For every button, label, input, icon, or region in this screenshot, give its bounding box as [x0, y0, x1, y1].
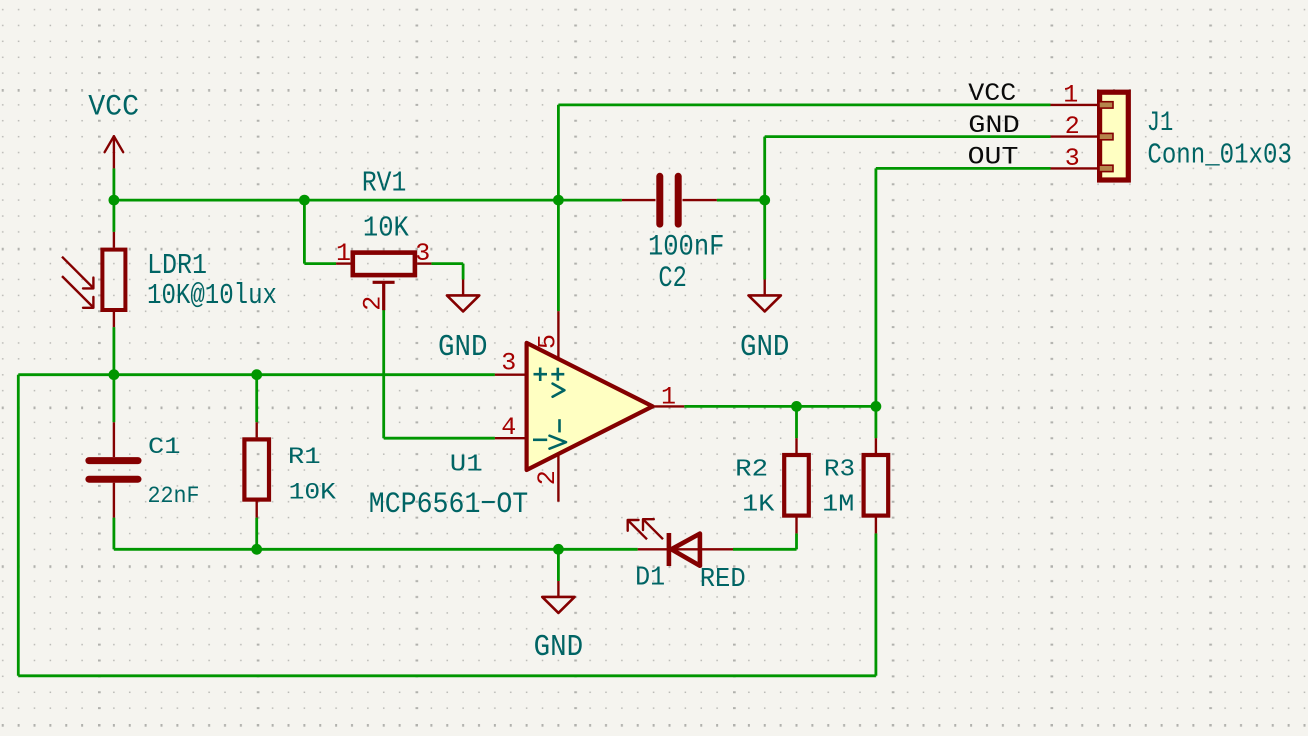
- U1 minus input mark: [533, 438, 547, 441]
- svg-text:2: 2: [533, 470, 562, 485]
- svg-text:C2: C2: [658, 262, 687, 296]
- U1 pins: [495, 311, 684, 502]
- svg-text:5: 5: [534, 334, 563, 349]
- svg-text:Conn_01x03: Conn_01x03: [1147, 139, 1292, 172]
- potentiometer RV1 body: [353, 253, 415, 276]
- svg-text:LDR1: LDR1: [147, 249, 207, 282]
- ground GND1 (RV1): [462, 280, 464, 296]
- junction D: [759, 195, 770, 206]
- junction C: [553, 195, 564, 206]
- svg-text:MCP6561−OT: MCP6561−OT: [369, 488, 529, 522]
- photoresistor LDR1 body: [102, 250, 125, 310]
- D1 emission arrow 1: [628, 520, 647, 539]
- capacitor C2 plates: [660, 176, 678, 224]
- wire LED to R2: [733, 548, 797, 551]
- wire noninverting input row: [18, 373, 495, 376]
- resistor R1 body: [244, 439, 269, 499]
- svg-text:GND: GND: [740, 330, 790, 365]
- U1 V- mark: [550, 419, 567, 449]
- svg-text:J1: J1: [1147, 108, 1174, 139]
- junction G: [791, 401, 802, 412]
- svg-text:10K: 10K: [363, 212, 410, 245]
- svg-text:R1: R1: [288, 444, 321, 470]
- wire RV1 pin3 to GND: [431, 262, 463, 265]
- wire C1 bottom: [113, 518, 116, 550]
- wire RV1 pin1 drop: [303, 200, 306, 264]
- wire LDR bottom to node: [113, 327, 116, 422]
- U1 V+ mark: [551, 368, 564, 397]
- wire R2 bottom: [795, 533, 798, 549]
- svg-text:22nF: 22nF: [148, 483, 200, 509]
- junction F: [251, 369, 262, 380]
- RV1 pins: [336, 262, 431, 264]
- wire OUT to J1 pin3: [876, 167, 1051, 170]
- svg-text:D1: D1: [635, 564, 665, 594]
- wire R1 bottom: [255, 518, 258, 550]
- svg-text:RED: RED: [700, 565, 746, 595]
- svg-text:2: 2: [359, 296, 388, 311]
- wire VCC bus top: [114, 199, 622, 202]
- svg-text:RV1: RV1: [362, 166, 407, 199]
- junction J: [553, 544, 564, 555]
- wire OUT vertical: [875, 168, 878, 438]
- svg-text:1M: 1M: [822, 492, 854, 519]
- resistor R3 body: [864, 455, 889, 516]
- op-amp U1 body: [527, 343, 653, 470]
- svg-text:4: 4: [501, 413, 516, 442]
- R2 pins: [795, 438, 797, 533]
- junction A: [109, 195, 120, 206]
- wire feedback left vertical: [17, 375, 20, 676]
- resistor R2 body: [784, 455, 809, 516]
- wire bottom GND row: [114, 548, 638, 551]
- RV1 wiper: [373, 282, 395, 310]
- LED D1 pins: [638, 548, 733, 550]
- capacitor C1 plates: [89, 461, 138, 480]
- wire op-amp V+ vertical: [557, 105, 560, 311]
- svg-text:VCC: VCC: [968, 79, 1016, 108]
- svg-text:100nF: 100nF: [648, 231, 725, 265]
- R3 pins: [875, 438, 877, 533]
- svg-text:2: 2: [1065, 112, 1080, 141]
- power symbol VCC: [105, 136, 124, 168]
- svg-text:1: 1: [661, 382, 676, 411]
- connector J1 body: [1100, 92, 1129, 180]
- junction B: [299, 195, 310, 206]
- wire RV1 pin1 horizontal: [304, 262, 336, 265]
- D1 cathode bar: [667, 533, 672, 566]
- wire GND vertical at C2: [763, 137, 766, 280]
- C2 pins: [622, 199, 717, 201]
- wire R1 top: [255, 375, 258, 423]
- svg-text:1K: 1K: [742, 492, 775, 519]
- ground GND3 (op-amp): [557, 581, 559, 597]
- svg-text:3: 3: [415, 239, 430, 268]
- svg-text:R2: R2: [735, 456, 768, 483]
- svg-text:3: 3: [1065, 144, 1080, 173]
- R1 pins: [256, 422, 258, 517]
- wire LDR top: [113, 200, 116, 232]
- wire VCC stem: [113, 168, 116, 200]
- junction H: [871, 401, 882, 412]
- wire feedback right vertical: [875, 533, 878, 675]
- J1 pin stubs: [1099, 102, 1113, 172]
- wire GND to J1 pin2: [765, 135, 1051, 138]
- C1 pins: [113, 422, 115, 517]
- svg-text:10K@10lux: 10K@10lux: [147, 279, 277, 312]
- svg-text:1: 1: [1063, 80, 1078, 109]
- D1 emission arrow 2: [643, 519, 663, 539]
- svg-text:U1: U1: [450, 451, 483, 478]
- wire VCC to J1 pin1: [558, 104, 1050, 107]
- svg-text:3: 3: [501, 348, 516, 377]
- wire op-amp pin2 GND stem: [557, 549, 560, 581]
- wire feedback bottom: [18, 674, 876, 677]
- LDR1 light arrow 2: [62, 276, 93, 308]
- svg-text:OUT: OUT: [968, 143, 1019, 172]
- D1 triangle: [671, 534, 700, 566]
- svg-text:VCC: VCC: [88, 91, 139, 125]
- svg-text:GND: GND: [438, 330, 488, 365]
- wire RV1 wiper down: [382, 310, 385, 439]
- LDR1 pins: [113, 232, 115, 327]
- wire R2 top: [795, 406, 798, 438]
- wire op-amp output: [684, 405, 876, 408]
- J1 pin lines: [1051, 105, 1100, 168]
- svg-text:R3: R3: [824, 456, 855, 483]
- svg-text:GND: GND: [534, 630, 584, 665]
- ground GND2 (C2): [764, 280, 766, 296]
- junction E: [109, 369, 120, 380]
- LDR1 light arrow 1: [62, 257, 93, 289]
- svg-text:GND: GND: [968, 111, 1020, 140]
- U1 plus input mark: [534, 368, 548, 382]
- svg-text:1: 1: [336, 239, 351, 268]
- junction I: [251, 544, 262, 555]
- svg-text:10K: 10K: [289, 480, 337, 506]
- wire to inverting input: [384, 437, 495, 440]
- wire C2 right to junction: [717, 199, 765, 202]
- svg-text:C1: C1: [148, 434, 181, 460]
